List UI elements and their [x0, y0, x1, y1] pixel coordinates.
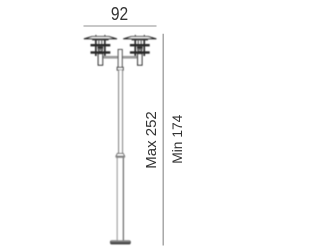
svg-text:92: 92 [111, 4, 128, 25]
svg-text:Min 174: Min 174 [170, 114, 185, 163]
svg-text:Max 252: Max 252 [143, 111, 160, 169]
